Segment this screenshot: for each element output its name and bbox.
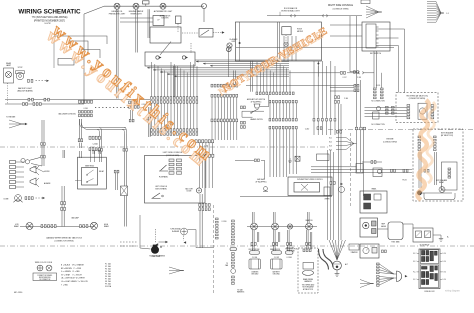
- svg-text:F-1 2: F-1 2: [413, 279, 417, 281]
- wire TS3: [365, 113, 408, 115]
- relay R1: [416, 231, 422, 238]
- wire long y85: [246, 85, 357, 87]
- left fuse console enclosure: [145, 156, 206, 204]
- wire elbow down x124: [122, 128, 126, 134]
- svg-text:W-1: W-1: [329, 137, 332, 139]
- switch panel box A: [360, 191, 387, 213]
- legend bullet list: [61, 264, 88, 287]
- wire pair center right long: [339, 104, 342, 240]
- rocker switch A3: [374, 194, 381, 200]
- connector col fan A: [377, 263, 380, 274]
- diode D1: [196, 188, 201, 193]
- X mark small: [295, 156, 300, 161]
- breaker circle in console: [284, 42, 288, 46]
- wire roof beacon: [267, 15, 362, 17]
- wire dashed above pump: [155, 229, 157, 243]
- wire pair console divider: [278, 22, 280, 61]
- starter block: [349, 244, 359, 250]
- relay box enclosure: [78, 157, 107, 189]
- wire verticals to alternator: [328, 150, 334, 240]
- wire into key box 2: [330, 35, 362, 37]
- wire key 3: [376, 45, 399, 47]
- relay K1: [199, 29, 213, 38]
- svg-text:TO ENGINE: TO ENGINE: [6, 117, 16, 119]
- wire long y196: [240, 195, 332, 197]
- svg-text:LAMP: LAMP: [6, 64, 12, 67]
- wire vertical x404: [404, 29, 406, 93]
- wire tank to relay: [403, 223, 413, 225]
- connector C-141: [335, 100, 340, 103]
- contact arrow: [185, 56, 188, 58]
- wire pair: [258, 232, 259, 242]
- relay K5 wiper: [294, 183, 320, 193]
- inline connector: [291, 15, 296, 18]
- wire pair: [63, 150, 65, 158]
- wire pair x115: [116, 170, 118, 190]
- wire dashed: [36, 197, 43, 199]
- wire pair x79 upper: [80, 119, 82, 139]
- wire pair center long: [200, 194, 202, 248]
- connector row C-104: [151, 133, 198, 136]
- wire nest vertical D: [53, 36, 55, 68]
- indicator 3: [372, 248, 377, 254]
- work lamp 3: [287, 224, 292, 229]
- connector: [41, 225, 49, 228]
- fuse labels right: [440, 253, 446, 281]
- K4 contact: [87, 179, 94, 182]
- wire aux vertical: [268, 95, 270, 107]
- connector: [382, 250, 387, 253]
- wire below CB2: [227, 48, 229, 77]
- wire bundle right: [314, 61, 335, 135]
- wire pair MA2 down: [435, 152, 437, 185]
- wire: [120, 17, 153, 19]
- connector row C-119 b: [211, 94, 238, 97]
- wire horn bus: [289, 72, 340, 74]
- svg-text:C-118: C-118: [357, 77, 361, 79]
- connector row: [330, 182, 335, 185]
- svg-text:C-1308: C-1308: [286, 257, 291, 259]
- connector: [306, 243, 311, 246]
- dotted boundary y107: [95, 107, 148, 109]
- small harness fan C: [360, 280, 374, 288]
- switch box S1: [150, 27, 181, 43]
- wire dotted: [7, 83, 9, 104]
- wire dashed: [213, 32, 222, 34]
- connector row C-204: [195, 140, 214, 143]
- wire dashed: [120, 241, 138, 243]
- watermark squiggle right: [418, 100, 429, 200]
- wire vertical x360: [360, 80, 362, 172]
- component alarm A: [373, 168, 382, 177]
- indicator 2: [372, 229, 377, 234]
- wire pair: [311, 232, 312, 249]
- wire TS4: [365, 116, 408, 118]
- motor M2 symbol: [419, 108, 425, 114]
- relay K1 contact: [201, 30, 210, 36]
- svg-text:WORK SIGNAL LIGHT: WORK SIGNAL LIGHT: [281, 9, 300, 12]
- wire pair below lamp1: [253, 230, 255, 251]
- wire: [145, 4, 147, 6]
- wire nest under watermark A: [54, 36, 107, 44]
- wire pair below key switch: [374, 51, 377, 88]
- legend note box: [33, 273, 57, 281]
- svg-text:C-140: C-140: [344, 98, 348, 100]
- fuse cluster lower: [422, 266, 438, 285]
- connector col right A: [374, 88, 377, 99]
- key switch enclosure: [362, 22, 390, 51]
- wire alarm 2: [311, 172, 412, 174]
- connector x115: [114, 170, 119, 173]
- connector below keyswitch 2: [354, 89, 359, 92]
- connector col fan B: [377, 276, 380, 287]
- svg-text:F-3 4: F-3 4: [443, 253, 447, 255]
- wire vertical x318: [317, 61, 319, 77]
- svg-text:C-120: C-120: [376, 85, 380, 87]
- svg-text:B+: B+: [447, 237, 449, 239]
- arrow: [156, 243, 159, 245]
- wire pair: [148, 9, 150, 38]
- wire console internal: [239, 22, 241, 61]
- wire TS1: [365, 107, 408, 109]
- alternator G6: [333, 261, 342, 270]
- connector: [273, 243, 278, 246]
- wire bundle center tails: [270, 129, 296, 177]
- connector row C-109: [313, 118, 336, 121]
- wire lamp row right: [247, 226, 317, 228]
- head lamp left: [26, 223, 33, 230]
- svg-text:KEY SWITCH: KEY SWITCH: [370, 53, 382, 55]
- switch X small: [295, 156, 300, 161]
- wire from CB1: [203, 9, 205, 23]
- wire long y60: [195, 59, 321, 61]
- wire pair below lamp3: [288, 230, 290, 251]
- wire: [363, 72, 374, 74]
- svg-text:C-117: C-117: [343, 77, 347, 79]
- wire label rows engine feed: [329, 137, 354, 151]
- svg-text:770 (S/N 512271001 AND ABOVE): 770 (S/N 512271001 AND ABOVE): [32, 16, 68, 19]
- svg-text:(CONNECTOR VIEWS): (CONNECTOR VIEWS): [409, 98, 426, 100]
- connector below C-200: [129, 119, 134, 122]
- backup alarm D symbol: [394, 271, 402, 282]
- indicator 1: [372, 221, 377, 226]
- arrow: [165, 241, 168, 243]
- wire down: [440, 235, 442, 239]
- connector: [28, 98, 33, 101]
- svg-text:TEMP: TEMP: [381, 224, 385, 226]
- wire pair: [279, 232, 280, 242]
- connector block top: [361, 0, 370, 4]
- wire bundle left console: [152, 62, 198, 97]
- wire pair below lamp4: [307, 230, 309, 249]
- breaker CB2: [227, 43, 232, 48]
- harness fan column C-1: [427, 2, 441, 23]
- wire dashed: [36, 80, 47, 82]
- wire dashed: [182, 32, 199, 34]
- fuse cluster upper: [422, 251, 438, 262]
- wire elbow 2: [323, 249, 333, 267]
- connector C-118 beads: [354, 71, 359, 74]
- svg-text:ALARM: ALARM: [44, 182, 51, 185]
- wire pair x99 down: [99, 134, 101, 148]
- svg-text:(BACKUP ALARM): (BACKUP ALARM): [17, 89, 33, 92]
- junction dot: [239, 42, 241, 44]
- plug connector left: [21, 158, 44, 173]
- wire down: [195, 230, 197, 248]
- connector row C-107: [269, 118, 297, 121]
- svg-text:GROUND: GROUND: [251, 274, 259, 276]
- connector: [80, 225, 88, 228]
- wire to pump: [140, 248, 151, 249]
- wire sender: [362, 161, 382, 163]
- breaker CB4: [377, 107, 381, 111]
- legend connector view 1: [37, 265, 43, 271]
- alternator fan wires: [329, 240, 346, 260]
- sender component box: [356, 164, 363, 174]
- work lamp 2: [272, 223, 279, 230]
- svg-text:STOP: STOP: [18, 67, 24, 69]
- rocker switch A2: [364, 203, 371, 209]
- svg-text:(CONNECTOR VIEWS): (CONNECTOR VIEWS): [54, 240, 73, 242]
- connector C-200 row2: [129, 106, 140, 109]
- wire key 1: [376, 28, 405, 30]
- boundary dashed vertical: [213, 205, 215, 293]
- connector row C-205: [199, 154, 214, 157]
- wire loop bottom: [422, 193, 455, 200]
- wire to ground: [433, 234, 441, 236]
- connector C-200A: [89, 136, 100, 139]
- svg-text:GY = GRAY V = VIOLET: GY = GRAY V = VIOLET: [61, 273, 82, 276]
- svg-text:G = GREEN R = RED: G = GREEN R = RED: [61, 271, 81, 273]
- connector col E2: [386, 106, 389, 114]
- wire pair x124 to lamps: [124, 196, 126, 227]
- svg-text:C-208: C-208: [83, 108, 87, 110]
- bead on vertical 1: [355, 127, 357, 130]
- fuse panel enclosure: [419, 249, 440, 289]
- round connector MA1: [417, 191, 421, 195]
- connector row C-103: [151, 129, 198, 132]
- wire: [120, 21, 153, 23]
- svg-text:(CONSOLE VIEW): (CONSOLE VIEW): [166, 155, 180, 157]
- wire: [381, 73, 383, 88]
- connector column E3: [232, 276, 235, 284]
- wire into key box: [330, 24, 362, 26]
- svg-text:HORN: HORN: [44, 171, 50, 173]
- fuse group: [169, 159, 182, 174]
- switch box strip: [324, 187, 330, 196]
- lamp alternator: [160, 3, 166, 9]
- wire right: [196, 247, 214, 249]
- light switch S2 body: [145, 52, 195, 66]
- svg-text:F-1 2: F-1 2: [413, 261, 417, 263]
- fan point: [441, 12, 444, 14]
- wire pair x233: [233, 71, 235, 85]
- svg-text:LB = LIGHT BLUE W = WHITE: LB = LIGHT BLUE W = WHITE: [61, 278, 86, 280]
- svg-text:BR = BROWN P = PINK: BR = BROWN P = PINK: [61, 268, 82, 270]
- wire pair below C-200: [131, 110, 133, 119]
- wire aux to bundle: [260, 106, 269, 108]
- wire pair x124 down: [124, 134, 126, 148]
- wire pair above lamp4: [308, 212, 310, 223]
- connector cab b: [61, 207, 66, 210]
- fuse panel lower: [420, 265, 438, 288]
- tailgate dashed box: [298, 248, 318, 293]
- breaker column: [10, 161, 25, 189]
- motor M2: [418, 103, 427, 119]
- cluster box G1: [360, 218, 378, 237]
- wire pair MA1 down: [419, 152, 421, 188]
- fuse panel upper: [420, 250, 438, 264]
- svg-text:V-0732: V-0732: [44, 23, 51, 25]
- K5 X mark: [301, 184, 308, 191]
- connector: [403, 169, 408, 172]
- frame boundary dash-dot: [0, 245, 474, 247]
- wire nest under watermark C: [79, 50, 100, 59]
- wire dashed below flasher: [183, 236, 185, 241]
- wire vertical x363: [363, 130, 365, 197]
- wire y91: [330, 90, 354, 92]
- svg-text:WIRE COLOR CODE: WIRE COLOR CODE: [35, 262, 53, 264]
- svg-text:(IF EQUIPPED): (IF EQUIPPED): [256, 182, 267, 184]
- fuel pump P1: [151, 245, 162, 254]
- connector row C-112: [241, 126, 246, 129]
- ground symbol: [335, 270, 340, 277]
- svg-text:C-1306: C-1306: [252, 257, 257, 259]
- connector: [251, 243, 256, 246]
- wire pair below switch: [174, 66, 176, 99]
- wire bus group upper: [147, 61, 289, 78]
- chassis boundary dash-dot: [0, 146, 330, 148]
- fuse labels left: [413, 253, 419, 281]
- svg-text:F-3 4: F-3 4: [443, 272, 447, 274]
- wire pair x79 lower: [80, 151, 82, 158]
- connector row C-102: [151, 101, 198, 104]
- wire elbow 1: [319, 249, 329, 270]
- svg-text:(IF EQUIPPED): (IF EQUIPPED): [251, 101, 262, 103]
- horn H2: [30, 178, 39, 187]
- connector on pair: [337, 130, 342, 133]
- key switch S7: [366, 24, 379, 48]
- connector row C-111: [241, 121, 246, 124]
- component E1: [373, 112, 380, 119]
- oval connector TG: [303, 270, 314, 275]
- connector aux left: [241, 106, 246, 109]
- lamp oil pressure: [114, 3, 120, 9]
- connector y160: [255, 159, 260, 162]
- svg-text:LOW: LOW: [15, 224, 19, 226]
- wire pair: [99, 150, 101, 154]
- K4 pivot: [86, 181, 87, 182]
- wire bundle center mid: [270, 103, 296, 118]
- dome lamp L3: [14, 195, 23, 203]
- connector row C-105: [256, 92, 294, 95]
- harness fan to cab: [9, 120, 25, 128]
- svg-text:(CONSOLE VIEW): (CONSOLE VIEW): [333, 9, 349, 11]
- connector x42 a: [41, 143, 46, 146]
- wire to tank: [378, 228, 389, 230]
- switch lever: [160, 42, 171, 56]
- svg-text:F-1 2: F-1 2: [413, 253, 417, 255]
- wiper control module: [288, 177, 332, 196]
- alarm solid box: [442, 162, 458, 190]
- wire pair x99 lower: [99, 151, 101, 162]
- connector below keyswitch: [354, 84, 359, 87]
- connector row C-120 c: [211, 119, 238, 122]
- connector col MA2: [434, 136, 437, 151]
- connector col right B: [381, 88, 384, 99]
- connector x42 b: [41, 155, 46, 158]
- svg-text:LEFT CONSOLE: LEFT CONSOLE: [155, 186, 167, 188]
- needle: [366, 248, 368, 250]
- connector row C-108: [269, 126, 297, 129]
- connector: [147, 117, 152, 120]
- connector in MA box: [424, 169, 429, 172]
- wire vertical x398: [398, 46, 400, 93]
- svg-text:MOTOR ALARM: MOTOR ALARM: [441, 132, 454, 135]
- wire pair from lamp2: [136, 9, 138, 52]
- connector row below console 2: [199, 208, 210, 211]
- wire y167: [311, 166, 357, 168]
- switch contact 2: [182, 56, 185, 59]
- connector: [23, 103, 28, 106]
- connector: [391, 169, 396, 172]
- junction dot console drop: [318, 63, 320, 65]
- connector: [25, 197, 33, 200]
- rocker switch A1: [364, 194, 371, 200]
- connector: [44, 98, 49, 101]
- svg-text:NO CONNECTION: NO CONNECTION: [371, 124, 384, 126]
- round connector E: [231, 269, 236, 274]
- wire pair from lamp1: [117, 9, 119, 98]
- connector on sender wire: [371, 161, 376, 164]
- svg-text:EXCITER: EXCITER: [162, 18, 170, 20]
- wire y160 b: [261, 159, 265, 161]
- connector col MA1: [418, 136, 421, 151]
- svg-text:C-1307: C-1307: [274, 257, 279, 259]
- wire down: [412, 224, 414, 228]
- wire double horizontal y128: [88, 128, 126, 130]
- arrow to K1 load: [222, 31, 225, 33]
- connector row below console: [199, 204, 210, 207]
- inline connector 2: [323, 15, 328, 18]
- resistor module A1: [153, 16, 164, 26]
- connector C-208 row1: [79, 100, 93, 103]
- wire bundle center: [257, 62, 290, 92]
- connector C-140: [335, 96, 340, 99]
- connector lozenge row 1: [250, 251, 294, 254]
- fuse F1: [143, 1, 150, 4]
- rear lamp L1: [4, 68, 14, 83]
- wire long y47: [236, 47, 394, 49]
- component TG1: [303, 263, 314, 270]
- wire elbow down x101: [97, 128, 101, 134]
- relay block: [413, 228, 433, 242]
- motor alarm dashed box: [413, 129, 463, 201]
- wire ladder tails lower: [212, 122, 237, 140]
- wire pair x124 lower: [124, 151, 126, 186]
- connector: [51, 225, 56, 228]
- svg-text:GROUND: GROUND: [273, 274, 281, 276]
- R2 contact: [425, 232, 430, 237]
- svg-text:(CONSOLE VIEW): (CONSOLE VIEW): [383, 142, 397, 144]
- connector: [287, 243, 292, 246]
- svg-text:CAB AND WIPER WIRING AT TAILST: CAB AND WIPER WIRING AT TAILSTOCK: [46, 236, 83, 239]
- svg-text:TEMP LIGHT: TEMP LIGHT: [130, 13, 142, 15]
- wire stub left: [75, 179, 82, 181]
- svg-text:CONNECTOR VIEWED: CONNECTOR VIEWED: [37, 275, 52, 277]
- wire vertical feed: [83, 14, 85, 104]
- relay module inner box: [82, 168, 98, 186]
